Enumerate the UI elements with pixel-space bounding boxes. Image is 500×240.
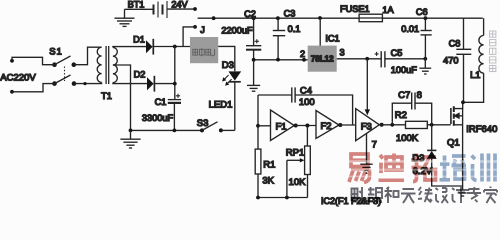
svg-text:10K: 10K	[289, 177, 307, 188]
resistor R2	[406, 121, 451, 128]
capacitor C2	[246, 18, 261, 60]
node F1 out	[294, 124, 298, 128]
node F3 out	[380, 123, 384, 127]
node on lower primary wire	[83, 82, 86, 85]
switch S3	[200, 122, 235, 133]
node wiper-rail	[285, 196, 289, 200]
label 继电器J	[193, 48, 215, 56]
node C5-C6-gnd	[423, 57, 427, 61]
svg-text:F1: F1	[275, 121, 286, 132]
IC U1 regulator	[308, 46, 337, 72]
wire +24V rail	[198, 17, 483, 19]
svg-text:C3: C3	[284, 8, 296, 18]
svg-text:100K: 100K	[396, 133, 419, 144]
wire ground bus mid	[254, 59, 308, 61]
switch S1	[52, 56, 76, 86]
capacitor C5	[375, 51, 426, 67]
node IC1 out	[365, 57, 369, 61]
op-amp F2	[316, 111, 339, 139]
wire secondary top to D1	[113, 46, 146, 49]
inductor L1	[464, 18, 484, 102]
svg-text:C1: C1	[155, 97, 167, 107]
svg-text:2: 2	[300, 49, 305, 59]
svg-text:100: 100	[299, 97, 315, 108]
svg-text:L1: L1	[470, 70, 480, 80]
capacitor C1	[168, 94, 181, 131]
svg-text:S3: S3	[197, 118, 209, 129]
wire AC input upper	[10, 57, 54, 64]
node C2-bus	[252, 58, 256, 62]
wire F1 input column	[257, 95, 259, 149]
node rail-IC1	[318, 16, 322, 20]
wire relay out to LED	[218, 46, 235, 71]
node tap-gnd	[129, 129, 133, 133]
svg-text:C6: C6	[416, 7, 428, 17]
capacitor C3	[273, 18, 285, 59]
wire rail to IC1	[319, 18, 321, 45]
svg-text:S1: S1	[49, 47, 63, 58]
wire switch to primary top	[74, 47, 102, 64]
node C7 left	[390, 123, 394, 127]
battery BT1	[125, 1, 197, 18]
svg-text:IRF640: IRF640	[466, 124, 497, 135]
node D1-J junction	[173, 45, 177, 49]
svg-text:470: 470	[443, 56, 458, 66]
ground (main)	[120, 130, 140, 148]
svg-text:D2: D2	[134, 70, 146, 80]
svg-text:LED1: LED1	[209, 100, 233, 111]
capacitor C6	[421, 18, 432, 59]
svg-text:C2: C2	[244, 9, 256, 19]
wire IC1 out	[337, 58, 381, 60]
svg-text:Q1: Q1	[447, 137, 460, 148]
svg-text:C8: C8	[449, 38, 461, 48]
wire F1-F2	[294, 125, 316, 127]
svg-text:7: 7	[372, 139, 377, 150]
wire F2-F3	[339, 124, 356, 126]
wire AC input lower	[10, 84, 54, 94]
fuse FUSE1	[359, 14, 382, 22]
svg-text:R2: R2	[395, 110, 407, 121]
node drain	[461, 100, 465, 104]
svg-text:BT1: BT1	[128, 0, 145, 10]
transistor Q1	[451, 102, 463, 186]
wire switch to primary bottom	[74, 82, 102, 83]
zener D3	[427, 125, 463, 186]
node RP1 top	[305, 124, 309, 128]
svg-text:2200uF: 2200uF	[221, 25, 253, 35]
svg-text:F2: F2	[320, 121, 331, 132]
node rail-relay	[212, 16, 216, 20]
wire rectifier rail	[174, 47, 176, 100]
wire bottom rail	[258, 197, 308, 199]
label coil vertical	[490, 31, 496, 72]
op-amp F1	[271, 110, 295, 141]
node rail-C2	[252, 16, 256, 20]
watermark gray 射频和天线设计专家	[352, 187, 498, 204]
potentiometer RP1	[287, 126, 310, 198]
ground (C2)	[247, 60, 260, 91]
svg-text:3K: 3K	[262, 176, 274, 187]
svg-text:RP1: RP1	[286, 147, 304, 158]
ground (battery)	[115, 9, 135, 26]
node C1-gnd	[173, 129, 177, 133]
ground (F3)	[360, 164, 372, 173]
node rail-C6	[424, 16, 428, 20]
node R1-rail	[256, 196, 260, 200]
capacitor C8	[456, 18, 471, 102]
op-amp F3	[356, 109, 380, 141]
wire secondary center tap	[113, 65, 131, 130]
svg-text:3300uF: 3300uF	[142, 113, 174, 123]
node D2 junction	[173, 82, 177, 86]
svg-text:0.1: 0.1	[288, 24, 301, 34]
svg-text:8: 8	[417, 90, 422, 101]
LED D3	[222, 71, 241, 130]
capacitor C7	[392, 93, 431, 125]
svg-text:T1: T1	[101, 91, 112, 101]
wire supply to F3	[365, 59, 370, 116]
wire to F1	[258, 125, 271, 127]
diode D1	[146, 39, 190, 55]
svg-text:R1: R1	[263, 160, 275, 171]
svg-text:100uF: 100uF	[391, 65, 417, 75]
ground (C5/C6)	[419, 59, 431, 74]
svg-text:D3: D3	[222, 60, 234, 71]
svg-text:C7: C7	[398, 90, 410, 101]
svg-text:1A: 1A	[382, 5, 394, 15]
resistor R1	[255, 149, 261, 197]
svg-text:AC220V: AC220V	[0, 72, 36, 83]
node C3-bus	[276, 58, 280, 62]
svg-text:C4: C4	[300, 85, 312, 96]
capacitor C4	[258, 87, 353, 124]
relay J box	[190, 37, 218, 63]
svg-text:D1: D1	[133, 35, 145, 45]
node F1 input	[256, 124, 260, 128]
wire ground rail left	[131, 129, 203, 131]
node pin2	[302, 58, 306, 62]
wire relay coil J	[183, 25, 197, 46]
transformer T1	[97, 46, 117, 84]
node C7 right	[430, 123, 434, 127]
node F2 out	[338, 123, 342, 127]
wire F3 pin7 gnd	[366, 134, 368, 164]
svg-text:0.01: 0.01	[401, 24, 419, 34]
svg-text:24V: 24V	[171, 0, 188, 10]
svg-text:78L12: 78L12	[311, 55, 334, 64]
watermark red 易迪拓 blue 培训	[349, 154, 495, 183]
svg-text:F3: F3	[361, 122, 372, 133]
wire F3 to R2	[379, 124, 405, 126]
svg-text:J: J	[200, 25, 205, 35]
watermark stripes	[346, 160, 500, 163]
node rail-C3	[276, 16, 280, 20]
svg-text:3: 3	[339, 47, 344, 57]
wire secondary bottom to D2	[113, 83, 147, 84]
svg-text:FUSE1: FUSE1	[340, 4, 370, 14]
svg-text:C5: C5	[391, 48, 403, 58]
svg-text:IC1: IC1	[325, 34, 339, 44]
ground (Q1 source)	[456, 186, 469, 196]
diode D2	[147, 76, 175, 92]
